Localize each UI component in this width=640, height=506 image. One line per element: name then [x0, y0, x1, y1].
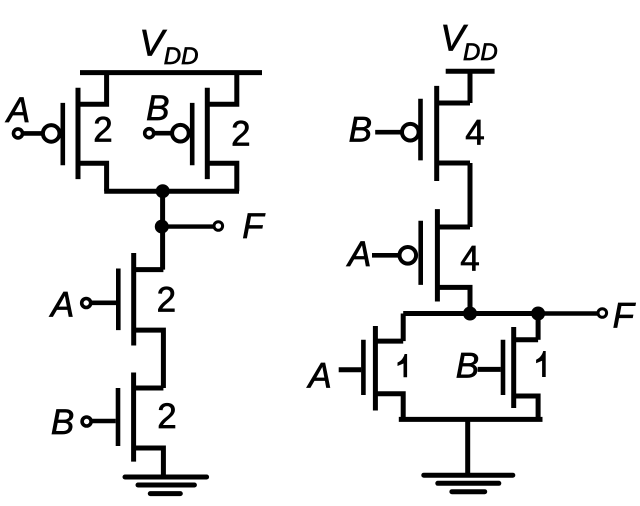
output terminal F (left NAND)	[214, 222, 223, 231]
svg-text:A: A	[5, 91, 30, 130]
nmos N3 (input A, W=1, right NOR)	[363, 314, 403, 420]
junction dot (N4 drain at node, right NOR)	[531, 307, 545, 321]
wire: nmos source rail (right NOR)	[399, 417, 543, 422]
input terminal A of N1	[82, 299, 116, 308]
net label VDD (right NOR)	[440, 17, 497, 66]
nmos N1 (input A, W=2, left NAND)	[118, 253, 163, 388]
pmos P2 (input B, W=2, left NAND)	[172, 73, 237, 192]
value label 1 (N4)	[536, 351, 546, 377]
wire: input lead B of N4	[478, 367, 501, 372]
VDD power rail (left NAND)	[80, 70, 262, 75]
wire: output F stub (right NOR)	[538, 311, 598, 315]
ground symbol (right NOR)	[424, 475, 513, 492]
svg-text:4: 4	[460, 240, 479, 279]
svg-text:B: B	[51, 403, 74, 442]
input terminal A of P1	[14, 129, 43, 138]
svg-text:2: 2	[93, 110, 112, 149]
ground symbol (left NAND)	[125, 477, 207, 494]
svg-text:B: B	[146, 89, 169, 128]
svg-text:F: F	[242, 207, 266, 246]
wire: P3 source to P4 drain (right NOR)	[468, 163, 473, 227]
svg-text:F: F	[613, 297, 637, 336]
svg-text:2: 2	[157, 397, 176, 436]
svg-text:2: 2	[231, 114, 250, 153]
wire: input lead B of P3	[375, 130, 402, 135]
svg-text:A: A	[49, 286, 74, 325]
output terminal F (right NOR)	[598, 309, 607, 318]
wire: output node line (right NOR)	[403, 311, 538, 316]
input terminal B of N2	[82, 417, 116, 426]
svg-text:B: B	[349, 111, 372, 150]
wire: pull-up drain node line (left NAND)	[104, 189, 239, 194]
junction dot (P4 drain at node, right NOR)	[463, 307, 477, 321]
svg-text:B: B	[456, 347, 479, 386]
wire: input lead A of P4	[372, 253, 399, 258]
svg-text:DD: DD	[164, 43, 199, 70]
wire: node to nmos N1 drain (left NAND)	[160, 191, 165, 269]
svg-text:2: 2	[157, 281, 176, 320]
junction dot on drain node (left NAND)	[156, 184, 170, 198]
pmos P4 (input A, W=4, right NOR)	[400, 209, 471, 313]
wire: input lead A of N3	[339, 367, 362, 372]
net label VDD (left NAND)	[139, 22, 198, 70]
svg-text:A: A	[306, 357, 331, 396]
junction dot at output F tap (left NAND)	[155, 220, 169, 234]
nmos N2 (input B, W=2, left NAND)	[118, 373, 163, 478]
wire: output F stub (left NAND)	[163, 224, 214, 228]
wire: source rail to ground (right NOR)	[465, 419, 470, 473]
VDD power rail (right NOR)	[446, 69, 495, 74]
pmos P3 (input B, W=4, right NOR)	[402, 71, 470, 181]
nmos N4 (input B, W=1, right NOR)	[503, 314, 538, 420]
svg-text:4: 4	[465, 114, 484, 153]
svg-text:DD: DD	[463, 39, 498, 66]
pmos P1 (input A, W=2, left NAND)	[43, 73, 107, 192]
value label 1 (N3)	[398, 354, 408, 377]
svg-text:A: A	[346, 235, 371, 274]
input terminal B of P2	[145, 129, 172, 138]
